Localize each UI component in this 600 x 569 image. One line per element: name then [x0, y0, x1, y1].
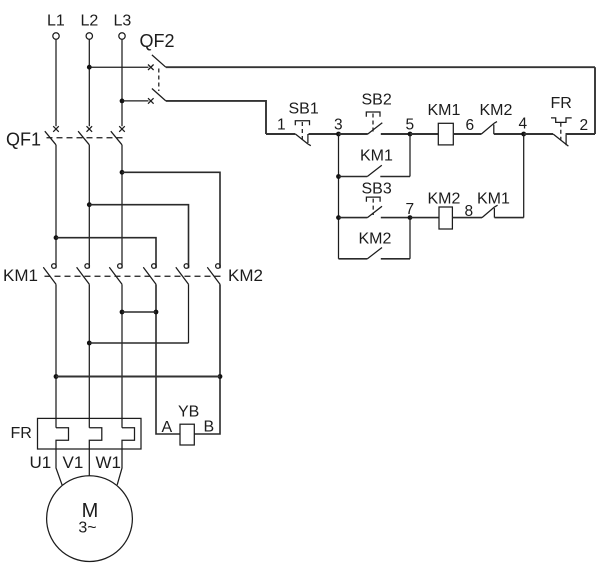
QF1 pole1 cross: [53, 126, 59, 132]
wire bus U: [56, 376, 220, 378]
wire SB3-7: [381, 217, 410, 219]
svg-text:L1: L1: [47, 13, 65, 30]
svg-text:SB1: SB1: [289, 101, 319, 118]
wire KM2 pole1 output: [156, 284, 180, 434]
QF2 pole2 blade: [152, 89, 166, 101]
wire L1 mid: [55, 145, 57, 268]
pushbutton SB2: [362, 92, 392, 135]
wire coil-6: [453, 133, 481, 135]
KM1 pole2 contact: [85, 264, 90, 269]
coil KM1: [428, 102, 461, 145]
wire branch4 up: [409, 218, 411, 259]
wire QF2 pole2 output: [166, 101, 266, 134]
wire KM1 pole3 output: [121, 284, 123, 428]
wire rail left: [266, 133, 295, 135]
svg-text:1: 1: [277, 117, 286, 134]
svg-text:KM2: KM2: [359, 231, 392, 248]
contact KM1 NC interlock: [477, 191, 510, 218]
wire 1-3: [309, 133, 339, 135]
KM1-KM2 linkage: [45, 275, 223, 277]
svg-text:3: 3: [334, 117, 343, 134]
node junction link W right: [154, 310, 159, 315]
thermal relay FR heater box: [11, 418, 142, 449]
wire KM2NC-4: [494, 133, 524, 135]
KM1 pole1 contact: [52, 264, 57, 269]
svg-text:L3: L3: [114, 13, 132, 30]
wire KM1NC-4: [494, 217, 523, 219]
QF2 pole2 contact cross: [148, 98, 154, 104]
svg-text:A: A: [162, 419, 173, 436]
svg-text:V1: V1: [63, 453, 84, 472]
svg-text:KM1: KM1: [477, 191, 510, 208]
node junction bus right: [218, 374, 223, 379]
wire QF2 pole2 input: [122, 100, 149, 102]
node 4: [521, 132, 526, 137]
wire right rail up: [594, 67, 596, 134]
FR heater phase2: [89, 428, 102, 449]
wire coil-8: [452, 217, 482, 219]
QF2 linkage: [158, 69, 160, 92]
QF2 pole1 contact cross: [148, 65, 154, 71]
QF1 pole3 cross: [119, 126, 125, 132]
svg-text:6: 6: [466, 117, 475, 134]
breaker QF1: [6, 126, 125, 149]
FR heater phase3: [122, 428, 135, 449]
svg-text:U1: U1: [30, 453, 52, 472]
QF1 linkage: [47, 137, 126, 139]
svg-text:5: 5: [406, 117, 415, 134]
svg-text:SB3: SB3: [362, 181, 392, 198]
KM1 pole3 contact: [118, 264, 123, 269]
QF1 pole2 blade: [78, 131, 89, 145]
wire 4-FR: [524, 133, 553, 135]
wire FR-2: [566, 133, 596, 135]
motor M: [47, 476, 133, 562]
KM2 pole2 contact: [184, 264, 189, 269]
wire QF2 pole1 output: [166, 66, 595, 68]
wire L2 mid: [88, 145, 90, 268]
contact KM1 NO self-hold: [339, 148, 411, 177]
KM2 pole1 contact: [152, 264, 157, 269]
svg-text:B: B: [204, 419, 215, 436]
wire tap L1 to KM2 pole1: [56, 238, 156, 269]
wire 3-SB2: [339, 133, 368, 135]
svg-text:W1: W1: [96, 453, 122, 472]
wire link W: [122, 311, 156, 313]
wire KM1 pole1 output: [55, 284, 57, 428]
QF2 pole1 blade: [152, 55, 166, 67]
wire SB2-5: [381, 133, 410, 135]
node junction L1 tap: [54, 235, 59, 240]
svg-text:KM2: KM2: [480, 102, 513, 119]
svg-text:KM1: KM1: [360, 148, 393, 165]
wire L3 top: [121, 39, 123, 126]
wire motor lead V1: [88, 449, 90, 476]
node 5: [408, 132, 413, 137]
QF1 pole1 blade: [45, 131, 56, 145]
wire tap L3 to KM2 pole3: [122, 172, 220, 268]
node 3: [336, 132, 341, 137]
wire QF2 pole1 input: [89, 66, 148, 68]
thermal contact FR: [551, 95, 572, 146]
svg-text:FR: FR: [11, 425, 32, 442]
svg-text:YB: YB: [178, 404, 199, 421]
svg-text:KM1: KM1: [3, 266, 38, 285]
wire KM2 pole2 output: [188, 284, 190, 343]
breaker QF2: [87, 31, 595, 134]
wire motor lead U1: [56, 449, 62, 486]
node junction link V: [87, 341, 92, 346]
terminal L2: [81, 13, 99, 40]
wire L3 mid: [121, 145, 123, 268]
node junction bus left: [54, 374, 59, 379]
svg-text:KM2: KM2: [228, 266, 263, 285]
node junction link W: [120, 310, 125, 315]
node junction 3b: [336, 215, 341, 220]
wire L2 top: [88, 39, 90, 126]
wire L1 top: [55, 39, 57, 126]
node junction L2 tap: [87, 202, 92, 207]
wire 4 down: [523, 134, 525, 218]
svg-text:FR: FR: [551, 95, 572, 112]
node junction 3a: [336, 174, 341, 179]
contactor KM2 main contacts: [143, 264, 263, 285]
node junction L2-QF2: [87, 65, 92, 70]
wire 7-coil: [410, 217, 439, 219]
FR heater phase1: [56, 428, 69, 449]
svg-text:KM1: KM1: [428, 102, 461, 119]
contact KM2 NO self-hold: [339, 231, 411, 259]
wire motor lead W1: [117, 449, 122, 485]
svg-text:SB2: SB2: [362, 92, 392, 109]
svg-text:QF1: QF1: [6, 130, 41, 150]
contact KM2 NC: [480, 102, 513, 134]
node junction L3 tap: [120, 170, 125, 175]
coil KM2: [428, 191, 461, 230]
contactor KM1 main contacts: [3, 264, 122, 285]
svg-text:L2: L2: [81, 13, 99, 30]
QF1 pole3 blade: [111, 131, 122, 145]
pushbutton SB1: [289, 101, 319, 146]
node junction L3-QF2: [120, 99, 125, 104]
QF1 pole2 cross: [87, 126, 93, 132]
svg-text:3~: 3~: [78, 520, 96, 537]
KM2 pole3 contact: [216, 264, 221, 269]
svg-text:7: 7: [406, 201, 415, 218]
wire link V: [89, 342, 188, 344]
wire tap L2 to KM2 pole2: [89, 205, 188, 269]
wire 5-coil: [410, 133, 438, 135]
brake YB: [162, 404, 215, 446]
wire node3 down: [338, 134, 340, 259]
svg-text:QF2: QF2: [140, 31, 175, 51]
svg-text:2: 2: [580, 117, 589, 134]
pushbutton SB3: [339, 181, 392, 218]
svg-text:KM2: KM2: [428, 191, 461, 208]
node 7: [408, 215, 413, 220]
svg-text:4: 4: [519, 116, 528, 133]
wire branch2 up: [409, 134, 411, 177]
wire KM1 pole2 output: [88, 284, 90, 428]
terminal L3: [114, 13, 132, 40]
terminal L1: [47, 13, 65, 40]
wire KM2 pole3 output: [194, 284, 220, 434]
svg-text:8: 8: [465, 203, 474, 220]
